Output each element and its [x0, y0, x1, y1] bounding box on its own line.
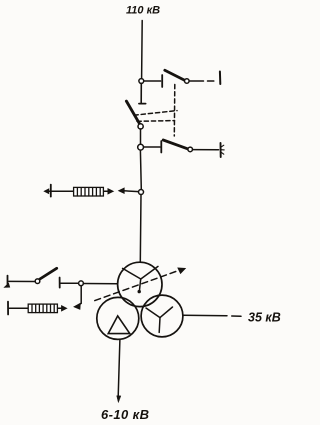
- svg-text:6-10 кВ: 6-10 кВ: [101, 407, 149, 422]
- tap-changer regulation arrow: [95, 270, 181, 301]
- label 110 kV: [126, 5, 160, 17]
- wire: 110kV incoming line: [141, 21, 144, 79]
- transformer T1 HV winding circle: [118, 262, 162, 306]
- arrester FV2 plug arrow right: [58, 306, 66, 311]
- wire: node B down to arrester node: [139, 150, 142, 189]
- MV winding star symbol: [146, 307, 173, 332]
- disconnector QS1 blade and pivot: [165, 70, 189, 83]
- wire: node D to transformer HV winding: [83, 283, 117, 285]
- separator QR1 fixed contact: [139, 84, 146, 104]
- contact bar of disconnector QS3: [59, 278, 61, 288]
- wire: bar to arrester FV1: [52, 190, 73, 192]
- node A: 110kV line junction: [139, 79, 144, 84]
- contact bar of disconnector QS2: [160, 141, 162, 153]
- wire: terminator to disconnector QS3: [9, 280, 35, 282]
- disconnector QS2 blade and pivot: [163, 140, 192, 152]
- arrester FV1 plug arrow right: [104, 189, 113, 194]
- LV winding delta symbol: [108, 316, 130, 334]
- wire: bar to arrester FV2: [9, 307, 28, 309]
- transformer T1 LV winding circle (delta): [97, 297, 139, 339]
- arrester FV2 plug arrow on node D: [74, 286, 81, 310]
- 35kV feeder terminator arrow: [4, 276, 10, 288]
- node C: arrester junction: [139, 190, 144, 195]
- arrester FV1 terminal bar: [50, 185, 52, 197]
- linkage: dashed vertical tie: [173, 85, 176, 137]
- svg-text:110 кВ: 110 кВ: [126, 5, 160, 17]
- arrester FV2 terminal bar: [7, 302, 9, 315]
- bypass line end bar: [219, 72, 221, 85]
- wire: node B to disconnector QS2: [144, 146, 160, 148]
- disconnector QS3 pivot and blade: [35, 268, 57, 283]
- HV winding star symbol: [123, 266, 158, 293]
- arrester FV1 hatched body: [74, 187, 104, 196]
- wire: QS1 to bypass line end: [189, 80, 214, 82]
- contact bar of disconnector QS1: [161, 75, 163, 87]
- arrester FV1 terminator arrow: [44, 189, 52, 194]
- wire: LV winding outgoing feeder: [118, 340, 120, 397]
- wire: QS2 to line end: [193, 149, 219, 151]
- outgoing feeder arrowhead: [117, 396, 121, 403]
- transformer T1 MV winding circle (star): [141, 295, 183, 337]
- linkage: upper dashed tie: [134, 111, 177, 116]
- separator QR1 blade and pivot: [126, 101, 143, 129]
- wire: QS3 to node D: [61, 282, 79, 284]
- svg-text:35 кВ: 35 кВ: [248, 311, 281, 325]
- wire: node A to bypass disconnector QS1: [144, 80, 161, 82]
- wire: QR1 to node B: [140, 129, 142, 144]
- arrester FV2 hatched body: [28, 304, 57, 313]
- label 35 kV: [248, 311, 281, 325]
- tap-changer arrowhead: [178, 268, 186, 274]
- wire: arrester node to transformer T1: [139, 195, 142, 263]
- linkage: lower dashed tie: [137, 120, 175, 123]
- label 6-10 kV: [101, 407, 149, 422]
- node B: main line junction: [138, 144, 144, 150]
- node D: MV winding junction: [79, 281, 84, 286]
- wire: MV winding to 35kV: [183, 315, 241, 316]
- line end bar with tap marks: [221, 143, 225, 157]
- arrester FV1 plug arrow left: [119, 188, 139, 193]
